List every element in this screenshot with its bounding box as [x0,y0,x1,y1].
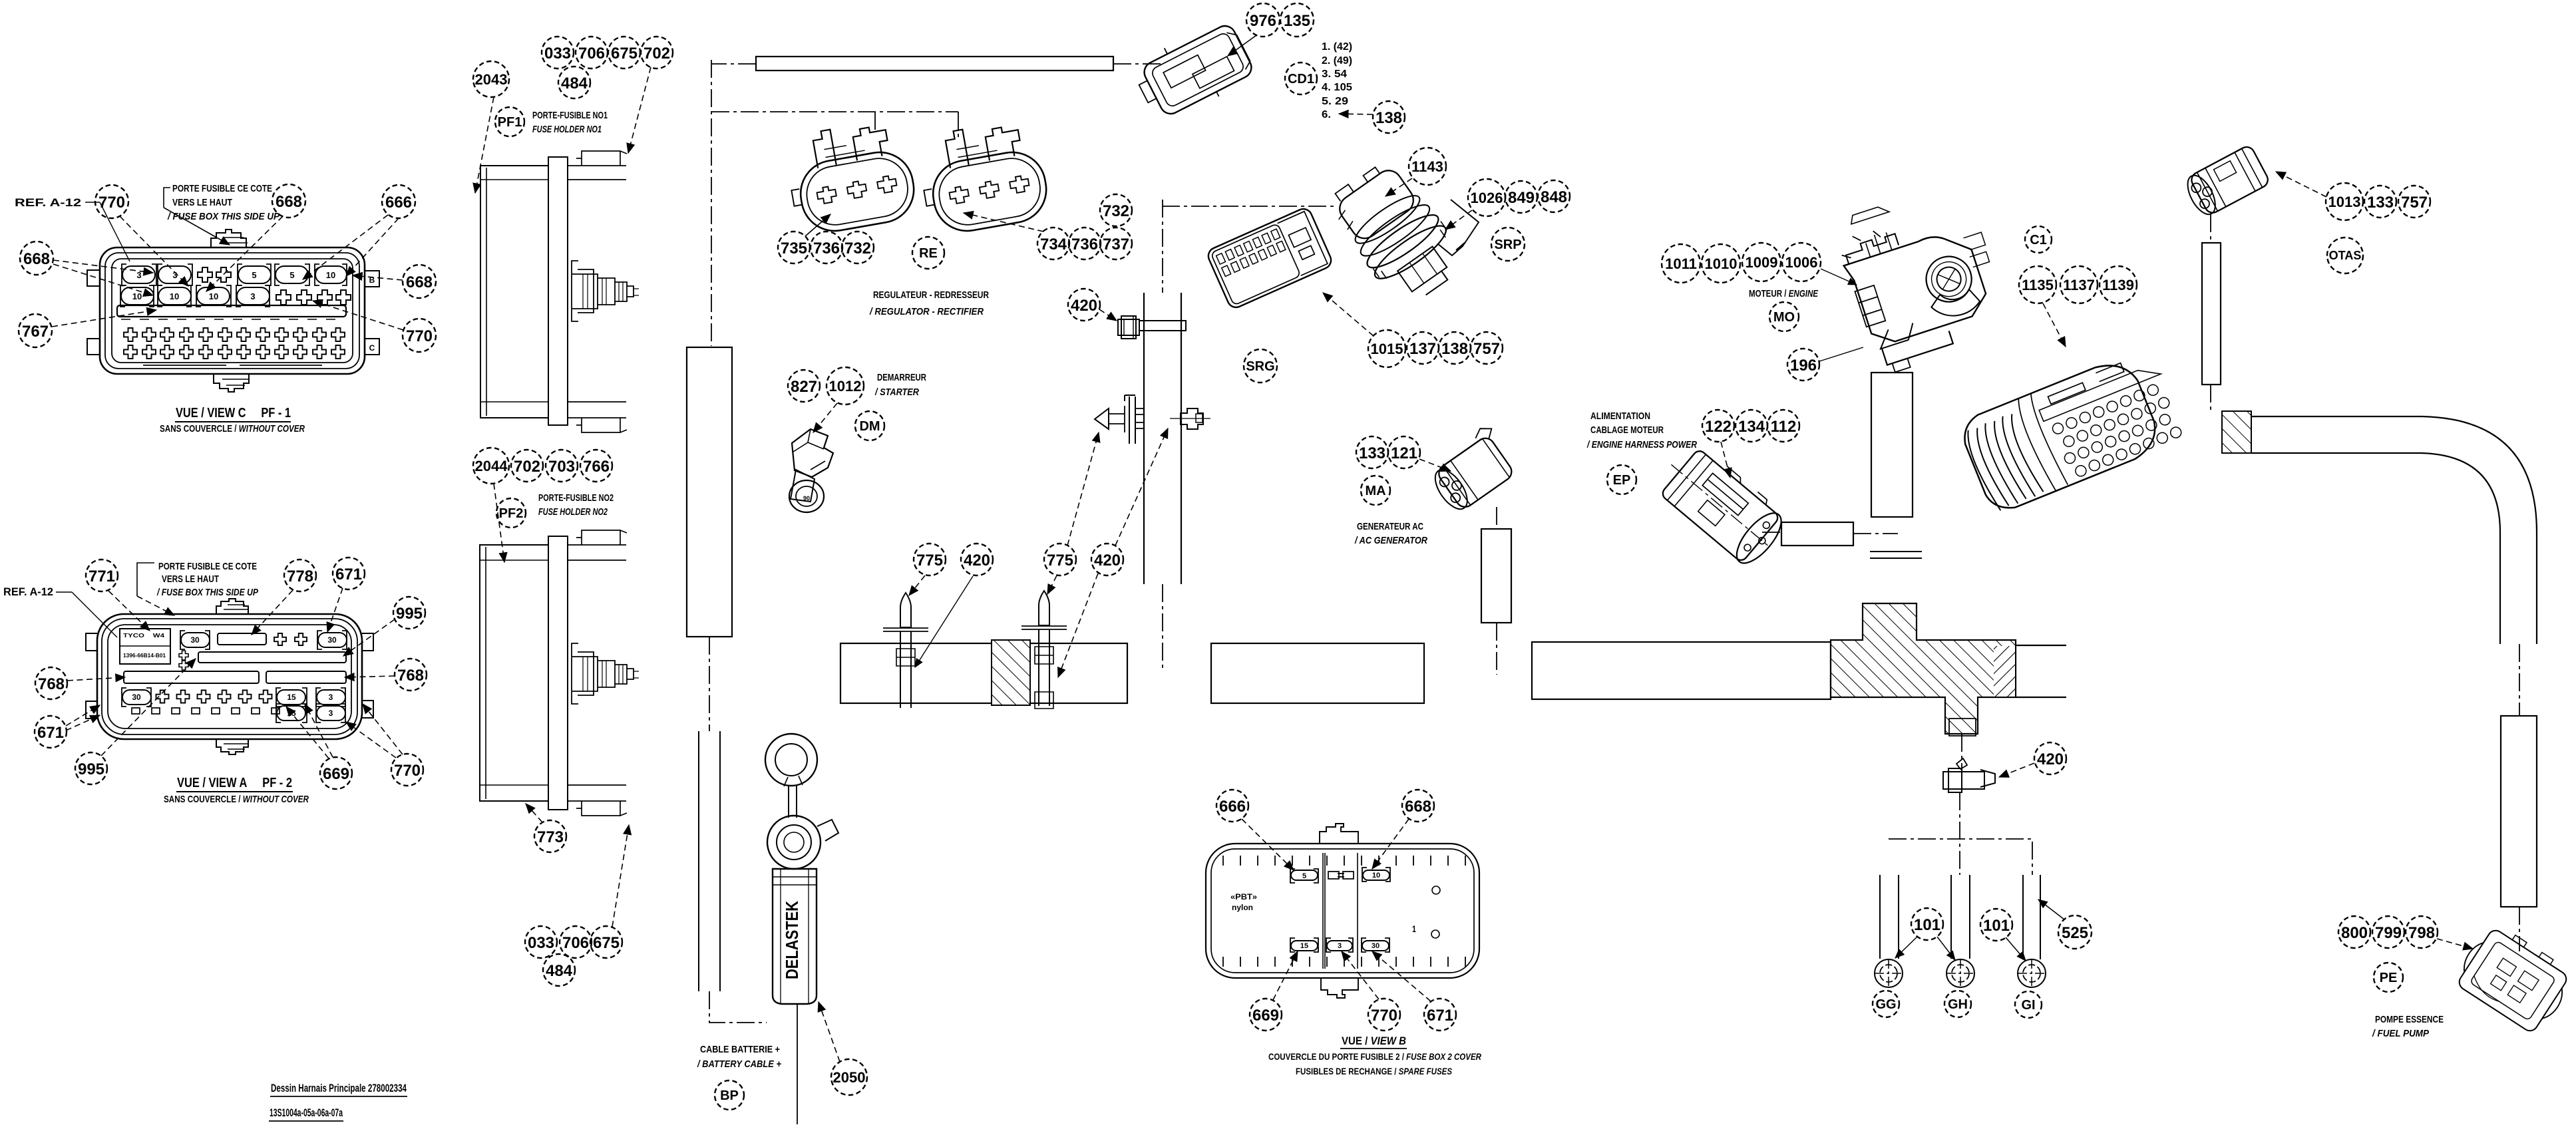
svg-text:1006: 1006 [1785,254,1818,271]
PF-2 top tab [216,599,248,614]
connector RE1 (3-pin regulator) [782,117,919,238]
svg-text:3: 3 [172,270,177,280]
svg-text:10: 10 [1372,872,1380,880]
svg-text:770: 770 [394,762,421,780]
balloon 668 (C right) [403,265,436,298]
balloon 2043 [473,61,509,97]
balloon 135 [1280,3,1314,37]
x8 mark [179,651,188,670]
anchor shaft [1109,406,1125,432]
svg-text:669: 669 [1252,1007,1279,1025]
leader labelA to box top [137,596,174,615]
svg-text:MO: MO [1773,310,1795,325]
wire EP wire (center-line) [1762,532,1781,533]
leader 770R to slot [313,301,403,330]
rivet 775a [883,593,928,708]
svg-text:PORTE FUSIBLE CE COTE: PORTE FUSIBLE CE COTE [172,183,272,194]
GH wires [1951,875,1970,959]
PF-2 right tab U [362,633,373,651]
svg-text:3: 3 [329,709,333,718]
leader 1135 to C1 [2043,303,2066,347]
battery cable + terminal (BP) [765,734,838,1124]
svg-text:13S1004a-05a-06a-07a: 13S1004a-05a-06a-07a [270,1106,343,1119]
PF-1 lower terminal grid [124,328,345,359]
DM lug [791,470,815,502]
balloon C1 [2025,226,2052,253]
svg-text:133: 133 [1359,444,1385,462]
svg-text:PF1: PF1 [498,115,522,130]
svg-text:1396-66B14-B01: 1396-66B14-B01 [123,653,166,659]
svg-text:RE: RE [919,246,938,261]
connector OTAS [2182,144,2271,220]
PF2 conn lines [583,657,639,691]
label bracket line A [137,563,154,596]
connector DM (starter cable lug) [789,429,833,512]
leader 771 to plate [108,591,150,631]
rivet775b extra collar [1035,692,1053,709]
anchor collar top [1135,408,1144,414]
leader 671 to cover [1372,951,1431,1001]
BP body line [781,869,809,1004]
svg-text:5: 5 [289,270,294,280]
balloon 1013 [2326,183,2363,220]
balloon GG [1873,991,1899,1017]
leader 666 to slots [303,215,388,279]
wire center pipe centerline (center-line) [1162,200,1163,671]
PF2 bottom stub [568,785,627,816]
svg-text:138: 138 [1376,109,1402,127]
balloon 137 (SRG) [1407,332,1439,364]
svg-text:1013: 1013 [2328,194,2361,210]
balloon 1135 [2019,266,2056,303]
balloon 484 (PF2) [543,954,575,986]
leader 798 to pump [2437,939,2473,949]
PF2 fuse holder side view body [480,536,568,810]
svg-text:827: 827 [791,378,817,396]
leader 668 to cover [1372,819,1409,869]
PF-1 top tab inner [220,238,248,243]
svg-text:196: 196 [1790,357,1817,375]
balloon 668 (C left) [20,242,53,275]
svg-text:703: 703 [548,458,575,476]
svg-text:525: 525 [2062,924,2088,942]
leader 2043 to body [475,97,494,193]
svg-text:1012: 1012 [829,378,862,395]
svg-text:10: 10 [170,291,179,301]
svg-text:668: 668 [1405,798,1431,816]
svg-text:MOTEUR / ENGINE: MOTEUR / ENGINE [1749,288,1819,299]
leader 671T to slot [327,588,343,632]
wire: mid panel bar 1 [840,643,1127,703]
svg-text:1026: 1026 [1471,190,1503,206]
svg-text:/ FUSE BOX THIS SIDE UP: / FUSE BOX THIS SIDE UP [156,587,259,598]
svg-text:771: 771 [89,567,115,585]
PF-2 long slots row 3 (768) [124,671,259,683]
balloon 420 (bottom) [2034,742,2066,774]
svg-text:2044: 2044 [475,458,508,474]
BP side lug [817,820,838,841]
svg-text:5. 29: 5. 29 [1322,96,1348,107]
leader 1143 to SRP [1385,178,1412,196]
svg-text:800: 800 [2341,924,2368,942]
svg-text:484: 484 [546,962,573,980]
svg-text:10: 10 [132,291,142,301]
balloon 757 (OTAS) [2398,186,2430,218]
leader 1013 to OTAS [2276,172,2326,197]
balloon 736 (RE2) [1069,228,1101,259]
balloon GH [1944,991,1971,1017]
svg-text:135: 135 [1284,12,1310,30]
leader 2050 to cable [819,1002,840,1062]
connector PE (fuel pump) [2451,919,2576,1037]
svg-text:775: 775 [916,552,943,569]
svg-text:30: 30 [190,635,200,645]
svg-text:Dessin Harnais Principale 2780: Dessin Harnais Principale 278002334 [271,1082,407,1094]
svg-text:666: 666 [385,194,412,212]
leader 770A to box [346,722,396,758]
svg-text:1143: 1143 [1411,158,1443,175]
balloon 138 (SRG) [1439,332,1471,364]
PF-1 bracket lines [143,365,322,366]
svg-text:VUE / VIEW A PF - 2: VUE / VIEW A PF - 2 [177,776,292,790]
svg-text:484: 484 [561,75,588,92]
connector SRP (speed sensor) [1323,153,1470,313]
clamp420 details [1124,316,1133,339]
svg-text:773: 773 [537,828,564,846]
svg-text:734: 734 [1040,236,1067,253]
balloon 122 [1702,410,1734,442]
leader 734 to RE2 [964,213,1043,232]
balloon 799 [2372,916,2404,948]
svg-text:FUSIBLES DE RECHANGE / SPARE F: FUSIBLES DE RECHANGE / SPARE FUSES [1296,1066,1453,1076]
leader 671L to sq1 [66,705,100,726]
balloon 737 [1100,228,1132,259]
PF1 fuse holder side view body [480,157,568,425]
svg-text:767: 767 [22,323,49,341]
leader 666 to cover [1242,819,1294,870]
svg-text:«PBT»: «PBT» [1230,892,1257,901]
REF A-12 A dash [56,591,72,593]
fuse box PF-2 VUE/VIEW A body [97,614,362,739]
fuse box PF-1 VUE/VIEW C body [100,247,365,374]
svg-text:706: 706 [578,45,605,63]
wire trunk centerline mid (center-line) [709,637,710,731]
EP break lines [1870,552,1922,558]
PF2 conn bracket [572,643,578,704]
balloon CD1 [1285,63,1317,94]
svg-text:DEMARREUR: DEMARREUR [877,372,926,383]
balloon 995 (A bottom) [75,752,107,784]
balloon 112 [1767,410,1799,442]
PF-2 fuse row 1 [180,631,347,649]
svg-text:420: 420 [964,552,990,569]
balloon 800 [2338,916,2370,948]
leader 995B diag [101,659,196,756]
hatched wall pass-through (OTAS line) [2222,411,2251,453]
svg-text:/ STARTER: / STARTER [874,387,919,398]
connector CD1 [1129,16,1258,126]
svg-text:3: 3 [1338,942,1342,950]
balloon 675 (PF2) [590,926,622,958]
balloon 770 (B) [1368,999,1400,1031]
balloon 770 (C top) [95,185,128,218]
fuel duct outer [2251,416,2537,644]
leader 666 to slots 2 [346,218,399,276]
connector MO (engine) [1830,179,2014,377]
svg-text:90: 90 [803,495,810,502]
leader 775a to pin [909,575,925,595]
wire clamp drop (center-line) [1960,734,1962,875]
svg-text:799: 799 [2375,924,2402,942]
svg-text:137: 137 [1409,340,1436,358]
svg-text:757: 757 [2401,194,2428,212]
leader 995R to slot [343,619,395,656]
wire EP wire right (center-line) [1853,533,1898,534]
svg-text:666: 666 [1219,798,1246,816]
VUEB bottom tab [1321,978,1358,998]
wire trunk to battery L (center-line) [709,991,767,1023]
balloon 766 (PF2) [580,450,612,482]
svg-text:CABLAGE MOTEUR: CABLAGE MOTEUR [1590,424,1664,436]
balloon 848 [1538,180,1570,212]
775b body [1039,629,1049,706]
svg-text:033: 033 [528,934,554,952]
svg-text:VERS LE HAUT: VERS LE HAUT [162,573,219,585]
775a body [900,631,911,708]
PF-1 fuse slots row1 (3,3,5,5,10) [122,264,347,285]
svg-text:OTAS: OTAS [2329,249,2362,262]
svg-text:SRP: SRP [1494,238,1521,252]
svg-text:737: 737 [1103,236,1129,253]
svg-text:995: 995 [78,760,104,778]
balloon 1010 [1702,244,1740,283]
balloon 1009 [1742,243,1781,281]
PF2 right connector assembly [572,643,639,704]
svg-text:770: 770 [1371,1007,1397,1025]
leader 101b to GI [2006,937,2026,961]
balloon 671 (A top) [333,558,365,589]
leader 976 to CD1 [1228,35,1256,56]
leader 101a to GG [1895,937,1917,958]
balloon 773 [534,820,566,852]
PF-1 bus bar tick row [121,319,335,320]
doc underline 1 [270,1096,407,1097]
svg-text:30: 30 [1372,942,1380,950]
bulkhead lighter hatch part [1994,646,2015,697]
balloon 525 [2058,915,2092,949]
svg-text:1135: 1135 [2022,277,2054,293]
svg-text:5: 5 [1302,872,1306,880]
VUEB dividers [1323,853,1358,969]
step white window [1949,719,1976,736]
wire branch regulators (center-line) [711,112,958,137]
balloon 666 (B) [1216,790,1248,822]
BP bottom line [797,1005,798,1124]
balloon OTAS [2327,238,2363,273]
balloon 706 (PF2) [560,926,592,958]
balloon 668 (B) [1402,790,1434,822]
svg-text:1009: 1009 [1746,254,1778,271]
hatched bulkhead T-section [1831,603,2016,734]
leader 525 to wire [2038,899,2064,919]
PF-2 bottom tab lines [224,744,249,749]
svg-text:GI: GI [2021,998,2035,1013]
balloon EP [1607,465,1636,494]
svg-text:MA: MA [1365,484,1385,498]
leader 138 to list [1339,114,1373,114]
anchor centerline [1170,418,1210,419]
balloon 033 (PF1) [542,37,574,69]
plate divider [120,645,170,647]
balloon 121 [1388,436,1420,468]
PF1 conn step2 [598,278,634,305]
svg-text:REGULATEUR - REDRESSEUR: REGULATEUR - REDRESSEUR [873,289,989,301]
svg-text:671: 671 [37,724,64,742]
svg-text:134: 134 [1738,418,1765,436]
balloon 101 (GG/GH) [1911,908,1943,940]
PF1 conn lines [583,274,639,309]
anchor cone [1095,408,1109,429]
svg-text:1010: 1010 [1705,255,1738,272]
leader 669 to cover [1273,951,1298,1000]
leader 122 to EP [1721,442,1730,478]
connector SRG [1206,206,1334,310]
balloon 732 (RE2) [1100,194,1132,226]
wire MA drop top (center-line) [1496,507,1497,529]
svg-text:668: 668 [406,273,433,291]
leader 702 to stub [628,67,651,153]
anchor nut [1181,408,1203,429]
balloon 767 (C) [19,314,52,347]
label bracket line [164,188,170,208]
PF-2 top tab lines [224,605,249,609]
PF-2 left tab 1 [86,633,97,651]
VUE B bottom tick row [1223,957,1465,967]
svg-text:420: 420 [2037,750,2064,768]
thru-hull fitting on pipe [1095,395,1210,444]
svg-text:VUE / VIEW B: VUE / VIEW B [1342,1035,1406,1047]
svg-text:15: 15 [287,693,296,702]
PF-1 bus bar 767 [117,305,346,317]
svg-text:CABLE BATTERIE +: CABLE BATTERIE + [700,1044,780,1055]
svg-text:3: 3 [329,693,333,702]
leader 768R to slot [345,676,395,677]
balloon PE [2374,963,2403,992]
balloon 666 (C) [382,185,415,218]
svg-text:675: 675 [593,934,620,952]
balloon 675 (PF1) [608,37,640,69]
leader REF A-12 to box [100,202,130,261]
balloon PF1 [495,107,524,136]
balloon 702 (PF2) [511,450,543,482]
leader 420 to clamp [1099,309,1117,321]
clamp 420 (on center pipe) [1118,316,1186,339]
svg-text:10: 10 [209,291,218,301]
rivet 775b [1021,591,1067,706]
PF-1 bottom tab inner [222,379,249,385]
balloon 734 [1037,228,1069,259]
clamp420b body [1943,768,1995,792]
balloon 420 (pipe clamp) [1068,289,1100,321]
balloon 849 [1505,181,1537,213]
balloon 671 (B) [1424,999,1456,1031]
PF-1 bottom tab [214,374,249,392]
775a pin [900,593,911,627]
svg-text:POMPE ESSENCE: POMPE ESSENCE [2375,1014,2444,1025]
svg-text:1: 1 [1412,923,1416,934]
balloon 668 (C top) [272,184,305,218]
balloon MA [1361,476,1390,505]
anchor nut box [1196,414,1202,422]
balloon 736 (RE1) [811,232,842,263]
svg-text:735: 735 [781,240,807,257]
balloon 101 (GI) [1980,909,2012,941]
balloon DM [855,411,884,440]
svg-text:6.: 6. [1322,109,1331,120]
leader 775b to anchor [1067,432,1099,546]
svg-text:848: 848 [1541,188,1567,206]
balloon 702 (PF1) [641,37,673,69]
balloon 703 (PF2) [546,450,578,482]
svg-text:768: 768 [38,675,65,693]
anchor collar bot [1135,422,1144,428]
svg-text:669: 669 [323,765,349,783]
PF-2 right tab C [362,701,373,718]
svg-text:702: 702 [644,45,670,63]
svg-text:671: 671 [1427,1007,1453,1025]
PF-2 fuse row 4 [122,688,345,707]
svg-text:702: 702 [514,458,540,476]
svg-text:/ AC GENERATOR: / AC GENERATOR [1354,535,1427,546]
leader 778 to slot [252,590,293,635]
wire branch to SRP (center-line) [1162,206,1336,207]
svg-text:nylon: nylon [1232,903,1253,912]
balloon 1139 [2100,266,2137,303]
svg-text:/ BATTERY CABLE +: / BATTERY CABLE + [697,1058,781,1070]
leader 420a to rivet [915,576,973,667]
PF-2 id plate (TYCO) [120,629,170,664]
balloon GI [2015,991,2042,1018]
svg-text:TYCO W4: TYCO W4 [123,633,165,639]
svg-text:DELASTEK: DELASTEK [782,901,802,979]
clamp420b squiggle [1956,758,1967,769]
svg-text:GH: GH [1948,997,1968,1012]
connector EP (engine harness power) [1652,438,1791,569]
PF-2 long slot row 2 [198,652,346,663]
wire fuel line mid (center-line) [2519,644,2520,716]
connector MA (AC generator) [1423,423,1521,516]
svg-text:1. (42): 1. (42) [1322,41,1352,53]
svg-text:775: 775 [1047,552,1073,569]
BP collar [773,877,817,885]
PF-2 bottom tab [216,739,248,754]
svg-text:REF. A-12: REF. A-12 [3,585,53,598]
balloon 798 [2406,916,2438,948]
svg-text:VUE / VIEW C PF - 1: VUE / VIEW C PF - 1 [176,406,291,420]
leader 671L to sq2 [66,715,100,730]
SRP flange arm [1437,200,1479,255]
doc underline 2 [269,1120,343,1122]
svg-text:3. 54: 3. 54 [1322,69,1347,80]
svg-text:1011: 1011 [1665,255,1697,272]
svg-text:2. (49): 2. (49) [1322,55,1352,67]
svg-text:CD1: CD1 [1288,72,1314,86]
PF-1 right tab B [365,271,379,287]
balloon SRG [1244,349,1277,383]
wire: mid panel bar 2 [1211,643,1424,703]
balloon 995 (A right) [393,597,425,629]
ground symbol GG [1875,959,1903,987]
